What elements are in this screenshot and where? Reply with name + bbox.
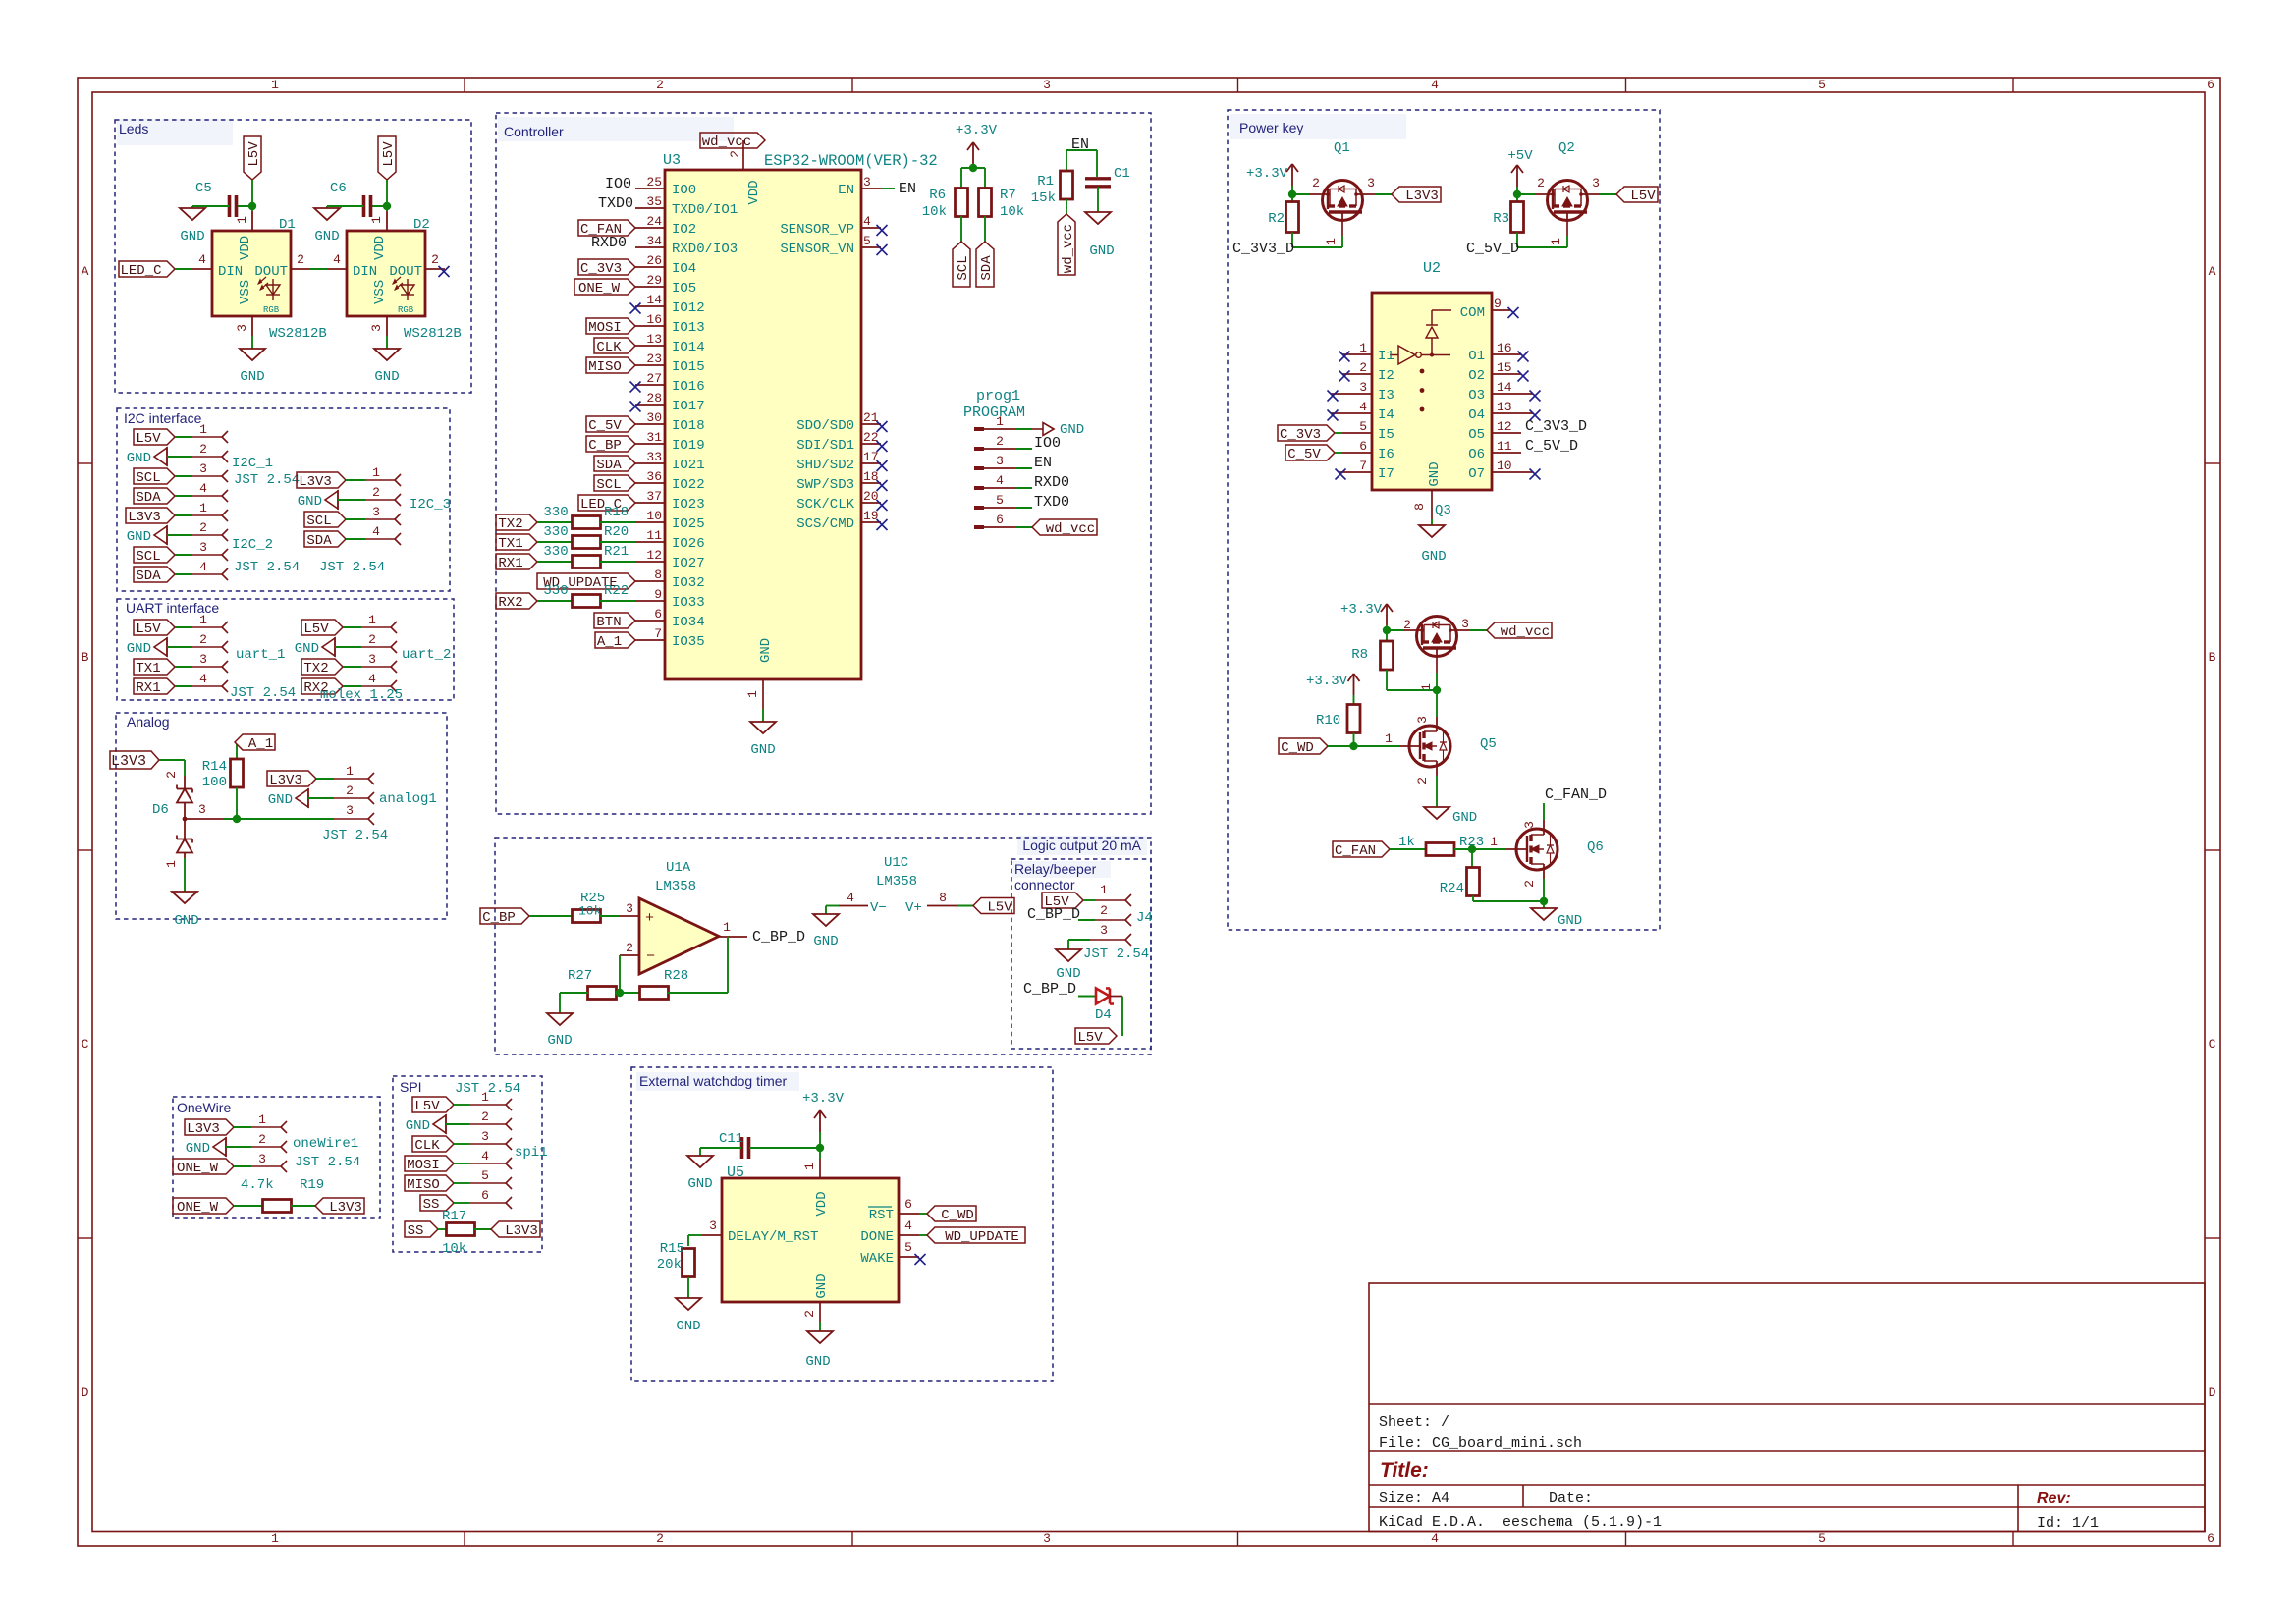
section box I2C interface	[117, 408, 450, 591]
svg-text:10k: 10k	[578, 904, 602, 919]
global label RX2	[496, 593, 537, 609]
ground GND	[433, 1115, 446, 1133]
pin 4	[361, 685, 391, 687]
svg-text:27: 27	[646, 371, 662, 386]
wire	[1472, 896, 1474, 902]
global label C_WD	[927, 1206, 976, 1221]
svg-text:O4: O4	[1468, 407, 1485, 423]
svg-text:ESP32-WROOM(VER)-32: ESP32-WROOM(VER)-32	[764, 152, 938, 170]
svg-text:4: 4	[863, 214, 871, 229]
no-connect	[1530, 391, 1541, 402]
svg-text:3: 3	[198, 802, 206, 817]
svg-text:2: 2	[656, 1531, 664, 1545]
pin 1	[192, 626, 222, 628]
wire	[175, 573, 192, 575]
power label L5V	[412, 1097, 454, 1112]
svg-text:SDA: SDA	[306, 533, 332, 549]
svg-text:C_5V: C_5V	[588, 418, 622, 434]
svg-text:Q1: Q1	[1334, 140, 1350, 156]
U3 pin 33 IO21	[635, 462, 665, 464]
svg-text:uart_1: uart_1	[236, 647, 285, 663]
U5 pin 1 VDD	[819, 1148, 821, 1159]
U2 pin 11 O6	[1492, 452, 1521, 454]
svg-text:R18: R18	[604, 505, 629, 520]
svg-text:Sheet: /: Sheet: /	[1379, 1414, 1449, 1431]
wire	[474, 1228, 491, 1230]
global label CLK	[412, 1136, 454, 1152]
no-connect U2 pin1	[1339, 352, 1350, 362]
prog1 pin 3	[974, 466, 984, 470]
pin 3 VSS	[386, 316, 388, 336]
svg-text:2: 2	[199, 442, 207, 457]
wire	[386, 336, 388, 349]
pin 1	[334, 778, 368, 780]
resistor R21 330	[573, 556, 601, 568]
svg-text:IO19: IO19	[672, 438, 705, 454]
wire	[529, 915, 573, 917]
U2 pin 15 O2	[1492, 373, 1521, 375]
svg-text:14: 14	[1497, 380, 1512, 395]
svg-text:Title:: Title:	[1380, 1459, 1429, 1482]
prog1 pin 6	[974, 525, 984, 529]
svg-text:330: 330	[543, 583, 568, 599]
svg-text:R6: R6	[929, 188, 946, 203]
svg-text:6: 6	[481, 1188, 489, 1203]
global label SDA	[134, 488, 175, 504]
svg-text:3: 3	[369, 324, 384, 332]
svg-text:+3.3V: +3.3V	[1246, 166, 1288, 182]
svg-text:IO27: IO27	[672, 556, 705, 571]
U2 pin 4 I4	[1331, 412, 1372, 414]
pin 2	[361, 646, 391, 648]
wire	[308, 797, 334, 799]
svg-text:TXD0: TXD0	[1034, 494, 1069, 511]
U3 pin 17 SHD/SD2	[861, 462, 881, 464]
svg-text:8: 8	[939, 891, 947, 905]
svg-text:SDI/SD1: SDI/SD1	[796, 438, 854, 454]
power label L5V (D2 supply)	[378, 136, 396, 180]
wire	[1015, 487, 1032, 489]
svg-text:IO0: IO0	[605, 176, 631, 192]
svg-text:8: 8	[654, 568, 662, 582]
svg-text:3: 3	[1592, 176, 1600, 190]
svg-text:3: 3	[258, 1152, 266, 1166]
wire	[960, 216, 962, 242]
wire	[446, 1123, 469, 1125]
svg-text:O2: O2	[1468, 368, 1485, 384]
no-connect	[915, 1254, 926, 1265]
wire R27 to gnd	[560, 992, 588, 994]
svg-text:RST: RST	[869, 1208, 894, 1223]
wire	[1015, 526, 1032, 528]
svg-text:R28: R28	[664, 968, 688, 984]
svg-text:wd_vcc: wd_vcc	[1501, 624, 1550, 640]
wire	[1386, 670, 1388, 690]
ground GND (prog1 pin1)	[1032, 428, 1043, 430]
svg-text:IO2: IO2	[672, 222, 696, 238]
svg-text:IO25: IO25	[672, 516, 705, 532]
global label TX1	[134, 659, 175, 675]
svg-text:Q2: Q2	[1558, 140, 1575, 156]
svg-text:6: 6	[996, 513, 1004, 527]
svg-text:JST 2.54: JST 2.54	[322, 828, 388, 843]
svg-text:IO34: IO34	[672, 615, 705, 630]
svg-text:SS: SS	[423, 1197, 440, 1213]
wire	[386, 180, 388, 211]
U5 pin 6 RST	[899, 1213, 919, 1215]
svg-text:GND: GND	[1452, 810, 1477, 826]
global label C_5V (U2 pin6)	[1285, 445, 1335, 460]
wire	[1110, 996, 1122, 998]
wire	[454, 1143, 469, 1145]
power label L5V (D1 supply)	[244, 136, 261, 180]
svg-text:C5: C5	[195, 181, 212, 196]
svg-text:6: 6	[654, 607, 662, 622]
wire	[192, 205, 230, 207]
junction	[1383, 626, 1391, 634]
svg-text:4: 4	[368, 672, 376, 686]
svg-text:LM358: LM358	[876, 874, 917, 890]
svg-text:GND: GND	[687, 1176, 712, 1192]
wire	[826, 905, 839, 907]
U2 pin 12 O5	[1492, 432, 1521, 434]
zener diode D6 (dual)	[184, 776, 186, 789]
svg-text:R21: R21	[604, 544, 629, 560]
resistor R25 10k	[573, 910, 601, 923]
svg-text:2: 2	[656, 78, 664, 92]
wire	[167, 456, 192, 458]
wire	[1083, 899, 1095, 901]
no-connect U3 pin 27	[630, 382, 641, 393]
svg-text:RXD0/IO3: RXD0/IO3	[672, 242, 738, 257]
junction	[1349, 742, 1357, 750]
ground	[1531, 908, 1557, 920]
svg-text:DELAY/M_RST: DELAY/M_RST	[728, 1229, 818, 1245]
wire	[175, 685, 192, 687]
svg-text:4: 4	[1431, 1531, 1439, 1545]
wire	[343, 626, 361, 628]
svg-text:Analog: Analog	[127, 714, 170, 730]
global label SCL	[594, 475, 635, 491]
svg-text:1: 1	[723, 920, 731, 935]
wire	[175, 666, 192, 668]
svg-text:3: 3	[1461, 617, 1469, 631]
resistor R8	[1386, 630, 1388, 641]
svg-text:10k: 10k	[1000, 204, 1024, 220]
svg-text:U3: U3	[663, 152, 681, 169]
resistor R14 100	[236, 744, 238, 759]
svg-text:File: CG_board_mini.sch: File: CG_board_mini.sch	[1379, 1435, 1582, 1452]
svg-text:VDD: VDD	[814, 1191, 830, 1216]
svg-text:IO16: IO16	[672, 379, 705, 395]
ground	[1056, 949, 1081, 961]
svg-text:O1: O1	[1468, 349, 1485, 364]
wire	[346, 538, 365, 540]
svg-text:5: 5	[996, 493, 1004, 508]
svg-text:I2C_1: I2C_1	[232, 456, 273, 471]
svg-text:D1: D1	[279, 217, 296, 233]
svg-text:2: 2	[431, 252, 439, 267]
U3 pin 11 IO26	[635, 541, 665, 543]
prog1 pin 4	[974, 486, 984, 490]
wire	[175, 495, 192, 497]
svg-text:I4: I4	[1378, 407, 1394, 423]
svg-text:O3: O3	[1468, 388, 1485, 404]
svg-text:16: 16	[1497, 341, 1512, 355]
svg-text:R3: R3	[1493, 211, 1509, 227]
no-connect	[1530, 410, 1541, 421]
U3 pin 6 IO34	[635, 620, 665, 622]
wire	[1068, 939, 1090, 941]
global label LED_C	[578, 495, 635, 511]
svg-text:1: 1	[996, 414, 1004, 429]
pin 2 DOUT	[425, 268, 445, 270]
capacitor C6	[371, 205, 388, 207]
pin 3	[251, 1165, 281, 1167]
power label L5V	[134, 620, 175, 635]
pin 3	[192, 666, 222, 668]
svg-text:JST 2.54: JST 2.54	[319, 560, 385, 575]
svg-text:Power key: Power key	[1239, 120, 1303, 135]
svg-text:LM358: LM358	[655, 879, 696, 894]
global label SCL	[134, 547, 175, 563]
global label MISO	[405, 1175, 454, 1191]
svg-text:L3V3: L3V3	[269, 773, 302, 788]
U3 pin 20 SCK/CLK	[861, 502, 881, 504]
pin 4	[192, 495, 222, 497]
wire gate Q2	[1517, 193, 1535, 195]
global label TX2	[301, 659, 343, 675]
svg-text:B: B	[82, 650, 89, 665]
wire	[175, 554, 192, 556]
svg-text:Date:: Date:	[1549, 1490, 1593, 1507]
svg-text:C_FAN: C_FAN	[1335, 843, 1376, 859]
ground GND	[296, 789, 308, 807]
svg-text:GND: GND	[127, 641, 151, 657]
global label TX2	[496, 514, 537, 530]
junction	[233, 815, 241, 823]
svg-text:R1: R1	[1037, 174, 1054, 189]
svg-text:5: 5	[863, 234, 871, 248]
wire	[335, 646, 361, 648]
svg-text:WS2812B: WS2812B	[404, 326, 462, 342]
svg-text:SENSOR_VP: SENSOR_VP	[780, 222, 854, 238]
section box Relay/beeper connector	[1012, 861, 1111, 878]
svg-text:3: 3	[863, 175, 871, 189]
U2 pin 5 I5	[1342, 432, 1372, 434]
junction	[616, 989, 624, 997]
svg-text:2: 2	[1100, 903, 1108, 918]
svg-text:+3.3V: +3.3V	[802, 1091, 845, 1107]
svg-text:V−: V−	[870, 900, 887, 916]
svg-text:22: 22	[863, 430, 879, 445]
svg-text:L5V: L5V	[246, 141, 262, 167]
svg-text:Logic output 20 mA: Logic output 20 mA	[1022, 838, 1141, 853]
resistor R19 4.7k	[263, 1200, 292, 1213]
svg-text:L5V: L5V	[136, 431, 161, 447]
global label wd_vcc (R1 bottom)	[1058, 214, 1075, 275]
wire	[159, 759, 185, 761]
U3 pin 37 IO23	[635, 502, 665, 504]
svg-text:U1C: U1C	[884, 855, 908, 871]
svg-text:1: 1	[199, 613, 207, 627]
svg-text:C_BP_D: C_BP_D	[1027, 906, 1080, 923]
ground	[1424, 807, 1449, 819]
svg-text:R14: R14	[202, 759, 227, 775]
svg-text:C_3V3: C_3V3	[1280, 427, 1321, 443]
pin 2	[334, 797, 368, 799]
resistor R20 330	[573, 536, 601, 549]
global label C_3V3 (U2 pin5)	[1278, 425, 1335, 441]
wire	[1335, 452, 1342, 454]
Q5 pin 3 (drain top) wire	[1436, 690, 1438, 717]
global label C_BP	[480, 908, 529, 924]
svg-text:5: 5	[1359, 419, 1367, 434]
wire LED_C to D1.DIN	[175, 268, 192, 270]
svg-text:4: 4	[333, 252, 341, 267]
svg-text:25: 25	[646, 175, 662, 189]
U3 pin 7 IO35	[635, 639, 665, 641]
pin 1	[192, 514, 222, 516]
wire	[251, 180, 253, 211]
power label L5V	[973, 898, 1014, 914]
J4 pin 3	[1090, 939, 1125, 941]
wire	[1353, 695, 1355, 705]
pin 3	[469, 1143, 506, 1145]
svg-text:GND: GND	[374, 369, 399, 385]
svg-text:C_BP_D: C_BP_D	[752, 929, 805, 946]
svg-text:prog1: prog1	[976, 388, 1020, 405]
pin 2	[251, 1146, 281, 1148]
svg-text:TX1: TX1	[498, 536, 522, 552]
svg-text:28: 28	[646, 391, 662, 406]
wire	[167, 646, 192, 648]
no-connect U2 pin2	[1339, 371, 1350, 382]
ground	[180, 208, 205, 220]
wire	[1066, 199, 1067, 214]
global label SCL	[134, 468, 175, 484]
pin 3	[334, 818, 368, 820]
global label LED_C	[119, 261, 175, 277]
wire	[454, 1104, 469, 1106]
svg-text:3: 3	[199, 461, 207, 476]
svg-text:33: 33	[646, 450, 662, 464]
svg-text:1: 1	[1490, 835, 1498, 849]
svg-text:GND: GND	[186, 1141, 210, 1157]
svg-text:Relay/beeper: Relay/beeper	[1014, 861, 1097, 877]
svg-text:GND: GND	[406, 1118, 430, 1134]
svg-text:IO0: IO0	[672, 183, 696, 198]
svg-text:31: 31	[646, 430, 662, 445]
svg-text:C: C	[2209, 1037, 2216, 1052]
svg-text:J4: J4	[1136, 910, 1153, 926]
global label SCL	[304, 512, 346, 527]
svg-text:IO18: IO18	[672, 418, 705, 434]
svg-text:CLK: CLK	[596, 340, 622, 355]
svg-text:C_3V3: C_3V3	[580, 261, 622, 277]
junction	[1433, 686, 1441, 694]
global label SDA	[594, 456, 635, 471]
svg-text:3: 3	[368, 652, 376, 667]
pin 4	[365, 538, 395, 540]
pin 3	[192, 475, 222, 477]
svg-text:connector: connector	[1014, 877, 1075, 893]
svg-text:U1A: U1A	[666, 860, 691, 876]
wire	[234, 1165, 251, 1167]
svg-text:wd_vcc: wd_vcc	[702, 135, 751, 150]
svg-text:34: 34	[646, 234, 662, 248]
global label wd_vcc (Q3)	[1487, 622, 1552, 638]
svg-text:C_FAN_D: C_FAN_D	[1545, 786, 1607, 803]
wire EN RC net	[1066, 149, 1097, 151]
svg-text:3: 3	[199, 652, 207, 667]
section box SPI	[393, 1076, 542, 1252]
wire	[600, 915, 620, 917]
svg-text:4: 4	[1431, 78, 1439, 92]
svg-text:Id: 1/1: Id: 1/1	[2037, 1515, 2099, 1532]
svg-text:30: 30	[646, 410, 662, 425]
svg-text:3: 3	[346, 803, 354, 818]
svg-text:I7: I7	[1378, 466, 1394, 482]
wire	[234, 1126, 251, 1128]
pin 1	[365, 479, 395, 481]
ground	[813, 914, 839, 926]
svg-text:SDO/SD0: SDO/SD0	[796, 418, 854, 434]
svg-text:A: A	[2209, 264, 2216, 279]
svg-text:IO22: IO22	[672, 477, 705, 493]
svg-text:VDD: VDD	[238, 236, 253, 260]
svg-text:20: 20	[863, 489, 879, 504]
no-connect U2 pin3	[1328, 391, 1339, 402]
svg-text:C_WD: C_WD	[941, 1208, 974, 1223]
wire	[762, 709, 764, 722]
global label A_1	[235, 734, 275, 750]
prog1 pin 2	[974, 447, 984, 451]
wire	[1543, 901, 1545, 908]
U3 pin 8 IO32	[635, 580, 665, 582]
svg-text:4: 4	[481, 1149, 489, 1163]
svg-text:DIN: DIN	[218, 264, 243, 280]
global label SCL (pull-up)	[953, 242, 970, 287]
svg-text:SDA: SDA	[136, 490, 161, 506]
pin 3	[361, 666, 391, 668]
ground	[807, 1331, 833, 1343]
wire feedback (pin2)	[619, 955, 621, 993]
svg-text:oneWire1: oneWire1	[293, 1136, 358, 1152]
svg-text:GND: GND	[1558, 913, 1582, 929]
svg-text:C_5V_D: C_5V_D	[1525, 438, 1578, 455]
power label L3V3	[1392, 187, 1441, 202]
svg-text:3: 3	[1043, 78, 1051, 92]
svg-text:A_1: A_1	[248, 736, 273, 752]
wire	[1015, 507, 1032, 509]
svg-text:R22: R22	[604, 583, 629, 599]
wire	[226, 1146, 251, 1148]
junction	[383, 202, 391, 210]
wire	[1291, 233, 1293, 248]
svg-text:IO21: IO21	[672, 458, 705, 473]
svg-text:5: 5	[904, 1240, 912, 1255]
svg-text:D6: D6	[152, 802, 169, 818]
svg-text:B: B	[2209, 650, 2216, 665]
junction	[816, 1144, 824, 1152]
svg-text:D: D	[2209, 1385, 2216, 1400]
svg-text:VSS: VSS	[238, 280, 253, 304]
U2 pin 10 O7	[1492, 471, 1533, 473]
Q1 pin 1 wire	[1341, 222, 1343, 236]
svg-text:External watchdog timer: External watchdog timer	[639, 1073, 788, 1089]
ground	[172, 892, 197, 903]
